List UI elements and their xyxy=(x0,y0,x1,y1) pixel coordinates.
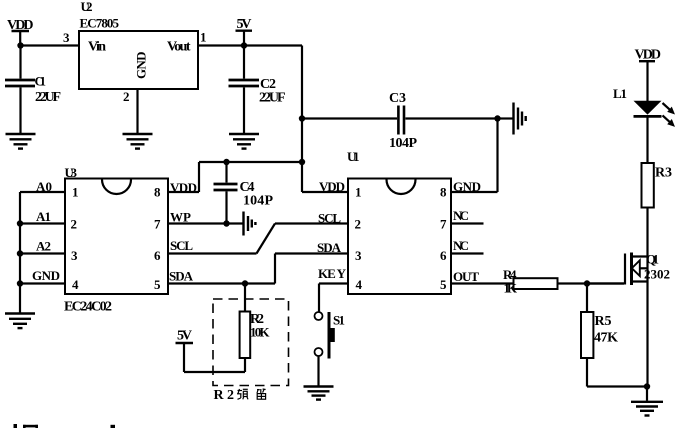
svg-text:U2: U2 xyxy=(81,0,93,14)
power VDD top right xyxy=(635,48,662,102)
ground C2 xyxy=(229,134,259,149)
wire R5 top xyxy=(586,284,588,313)
svg-text:SDA: SDA xyxy=(169,269,194,284)
wire SDA node to R2 xyxy=(244,284,246,312)
resistor R2 xyxy=(240,312,251,359)
svg-text:22UF: 22UF xyxy=(259,91,286,106)
value label R2 10K xyxy=(250,312,270,340)
svg-text:3: 3 xyxy=(71,248,78,263)
svg-text:EC24C02: EC24C02 xyxy=(64,300,112,315)
resistor R4 xyxy=(514,278,558,289)
wire OUT to R4 xyxy=(451,282,514,284)
resistor R5 xyxy=(581,312,593,358)
svg-text:3: 3 xyxy=(355,248,362,263)
svg-text:NC: NC xyxy=(453,238,469,253)
svg-text:1: 1 xyxy=(355,185,362,200)
ground U3 bus xyxy=(5,314,35,329)
regulator U2 EC7805 xyxy=(79,0,198,89)
svg-text:8: 8 xyxy=(154,185,161,200)
svg-text:22UF: 22UF xyxy=(35,90,61,105)
svg-text:8: 8 xyxy=(440,185,447,200)
wire SDA net xyxy=(168,254,348,284)
svg-text:GND: GND xyxy=(32,268,60,283)
resistor R3 xyxy=(642,163,654,208)
value label R5 47K xyxy=(594,314,618,346)
node bus-A1 xyxy=(17,220,23,226)
wire A1 xyxy=(20,222,65,224)
node C4-WP junction xyxy=(223,220,229,226)
wire VDD to U2 pin3 xyxy=(21,44,80,46)
node bus-GND xyxy=(17,280,23,286)
node rail-U3VDD junction xyxy=(299,159,305,165)
wire KEY to S1 xyxy=(319,284,348,313)
ground S1 xyxy=(304,387,334,400)
ground C1 xyxy=(6,134,36,149)
ground sideways at WP xyxy=(244,212,256,236)
wire NC pin7 xyxy=(451,222,484,224)
svg-text:SDA: SDA xyxy=(317,240,342,255)
capacitor C1 xyxy=(5,46,35,134)
node bus-A2 xyxy=(17,250,23,256)
svg-text:EC7805: EC7805 xyxy=(80,16,120,31)
svg-text:VDD: VDD xyxy=(319,179,345,194)
svg-text:S1: S1 xyxy=(333,313,345,328)
svg-text:104P: 104P xyxy=(389,136,417,151)
power 5V xyxy=(236,17,253,46)
wire A0 xyxy=(20,191,65,193)
svg-text:5V: 5V xyxy=(177,329,192,344)
wire NC pin6 xyxy=(451,252,484,254)
svg-text:GND: GND xyxy=(453,179,481,194)
svg-text:A2: A2 xyxy=(36,239,51,254)
wire A2 xyxy=(20,252,65,254)
wire R5 bottom to source node xyxy=(587,358,647,387)
wire R2 bottom to 5V xyxy=(184,343,245,372)
wire Vout to 5V rail xyxy=(198,44,302,46)
node gate-R5 junction xyxy=(584,280,590,286)
capacitor C3 xyxy=(302,106,498,135)
svg-text:Vout: Vout xyxy=(167,40,191,55)
capacitor C2 xyxy=(229,46,260,134)
svg-text:104P: 104P xyxy=(243,194,273,209)
node VDD-C1 junction xyxy=(17,42,23,48)
value label C2 22UF xyxy=(259,77,286,106)
node SDA-R2 junction xyxy=(242,280,248,286)
node C4 top junction xyxy=(223,159,229,165)
svg-text:1K: 1K xyxy=(504,281,518,296)
pin numbers U3 right xyxy=(154,185,161,293)
svg-text:KE Y: KE Y xyxy=(318,266,347,281)
svg-text:VDD: VDD xyxy=(170,180,197,195)
svg-text:WP: WP xyxy=(170,210,191,225)
svg-text:SCL: SCL xyxy=(170,238,193,253)
wire rail to U1 pin1 xyxy=(302,191,348,193)
dashed outline R2 reserved xyxy=(213,299,289,386)
svg-text:2: 2 xyxy=(355,217,362,232)
svg-text:4: 4 xyxy=(72,277,79,292)
svg-text:1: 1 xyxy=(72,185,79,200)
svg-text:OUT: OUT xyxy=(453,269,479,284)
svg-text:2: 2 xyxy=(71,217,78,232)
node 5V junction xyxy=(241,42,247,48)
svg-text:6: 6 xyxy=(440,248,447,263)
wire U3 GND pin xyxy=(20,282,65,284)
ground U2 xyxy=(123,134,153,149)
wire 5V rail vertical drop xyxy=(301,46,303,193)
svg-text:GND: GND xyxy=(134,52,149,80)
transistor Q1 mosfet xyxy=(587,253,648,387)
node source-ground junction xyxy=(644,383,650,389)
capacitor C4 xyxy=(214,162,238,224)
wire address bus vertical xyxy=(19,192,21,313)
svg-text:5: 5 xyxy=(440,277,447,292)
svg-text:7: 7 xyxy=(440,217,447,232)
caption R 2 reserved xyxy=(214,388,266,403)
wire U2 GND pin xyxy=(136,89,138,133)
value label R4 1K xyxy=(503,267,518,296)
pin numbers U1 right xyxy=(440,185,447,293)
svg-text:10K: 10K xyxy=(250,325,270,340)
pin numbers U1 left xyxy=(355,185,363,293)
power VDD top-left xyxy=(7,18,34,46)
value label Q1 2302 xyxy=(644,252,670,282)
led L1 xyxy=(613,86,662,163)
svg-text:3: 3 xyxy=(63,30,70,45)
svg-text:C3: C3 xyxy=(389,91,406,106)
wire R3 to drain xyxy=(646,208,648,257)
value label C4 104P xyxy=(240,180,274,209)
svg-text:R5: R5 xyxy=(595,314,612,329)
svg-text:R3: R3 xyxy=(655,166,672,181)
svg-text:Q1: Q1 xyxy=(646,252,659,267)
wire S1 to ground xyxy=(317,356,319,386)
svg-text:2: 2 xyxy=(227,388,234,403)
wire SCL net with diagonal xyxy=(168,224,348,254)
svg-text:R: R xyxy=(214,388,225,403)
node rail-C3 junction xyxy=(299,115,305,121)
svg-text:7: 7 xyxy=(154,217,161,232)
svg-text:4: 4 xyxy=(356,277,363,292)
ground sideways right of C3 xyxy=(498,103,526,135)
svg-text:C1: C1 xyxy=(35,74,47,89)
value label C3 104P xyxy=(389,91,417,151)
svg-text:A1: A1 xyxy=(36,209,51,224)
wire U3 WP row xyxy=(168,222,243,224)
switch S1 xyxy=(315,312,346,359)
svg-text:Vin: Vin xyxy=(88,40,106,55)
svg-text:U1: U1 xyxy=(347,149,360,164)
node C3-GND junction xyxy=(494,115,500,121)
svg-text:2302: 2302 xyxy=(644,267,670,282)
wire C3 node down to U1 pin8 xyxy=(451,119,498,193)
svg-text:5: 5 xyxy=(154,277,161,292)
partial caption text bottom left xyxy=(14,424,116,428)
pin numbers U3 left xyxy=(71,185,80,293)
svg-text:1: 1 xyxy=(200,30,207,45)
ground bottom right xyxy=(631,387,663,416)
wire U3 VDD rail xyxy=(168,162,302,192)
value label C1 22UF xyxy=(35,74,62,106)
power 5V at R2 xyxy=(176,329,194,344)
svg-text:NC: NC xyxy=(453,208,469,223)
led arrows xyxy=(663,103,676,127)
svg-text:L1: L1 xyxy=(613,86,627,101)
eeprom U3 EC24C02 body xyxy=(64,165,168,315)
wire R4 to gate xyxy=(558,282,625,284)
svg-text:47K: 47K xyxy=(594,331,618,346)
svg-text:SCL: SCL xyxy=(318,211,341,226)
svg-text:2: 2 xyxy=(123,89,130,104)
controller U1 body xyxy=(347,149,451,294)
svg-text:6: 6 xyxy=(154,248,161,263)
